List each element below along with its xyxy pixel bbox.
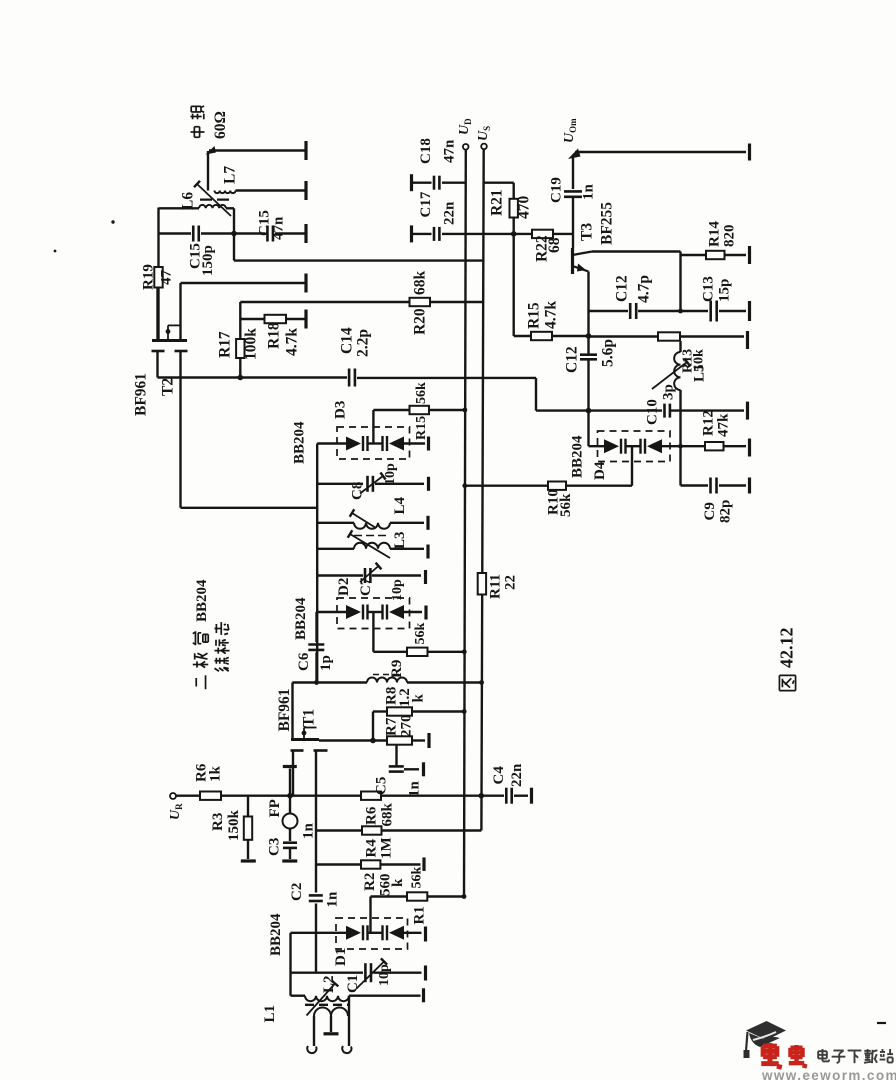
svg-text:L4: L4 — [392, 496, 408, 514]
svg-text:R4: R4 — [363, 839, 379, 858]
svg-text:BB204: BB204 — [268, 913, 284, 956]
svg-text:R1: R1 — [411, 906, 427, 924]
svg-text:56k: 56k — [414, 382, 429, 404]
svg-text:470: 470 — [516, 196, 533, 220]
svg-text:L1: L1 — [262, 1005, 278, 1023]
svg-text:C9: C9 — [702, 502, 718, 520]
svg-text:C12: C12 — [614, 275, 631, 302]
svg-text:R17: R17 — [217, 331, 234, 358]
svg-text:D1: D1 — [333, 948, 349, 966]
svg-text:68: 68 — [546, 237, 563, 253]
svg-text:47n: 47n — [270, 216, 286, 240]
svg-text:1p: 1p — [318, 655, 334, 671]
svg-text:R3: R3 — [210, 813, 226, 831]
svg-text:BF961: BF961 — [276, 688, 293, 731]
svg-text:L3: L3 — [392, 531, 408, 549]
svg-text:L2: L2 — [321, 975, 337, 993]
svg-text:C12: C12 — [564, 346, 581, 373]
svg-text:C5: C5 — [373, 777, 389, 795]
svg-text:www.eeworm.com: www.eeworm.com — [761, 1068, 896, 1080]
svg-text:R11: R11 — [487, 574, 503, 599]
svg-text:C19: C19 — [548, 177, 564, 203]
svg-text:4.7k: 4.7k — [284, 328, 301, 356]
svg-text:k: k — [410, 694, 426, 703]
svg-text:1n: 1n — [300, 823, 316, 840]
svg-text:L7: L7 — [222, 166, 239, 184]
svg-text:60Ω: 60Ω — [212, 111, 229, 139]
svg-text:BB204: BB204 — [291, 421, 307, 464]
svg-text:R2: R2 — [362, 873, 378, 891]
svg-text:BB204: BB204 — [293, 597, 309, 640]
svg-text:5.6p: 5.6p — [600, 339, 617, 367]
svg-text:D3: D3 — [332, 401, 348, 419]
svg-text:3p: 3p — [660, 384, 676, 400]
svg-text:T2: T2 — [160, 378, 177, 396]
svg-text:42.12: 42.12 — [777, 628, 797, 669]
svg-text:270: 270 — [398, 715, 414, 738]
svg-text:C14: C14 — [339, 327, 356, 354]
svg-text:10p: 10p — [390, 579, 405, 601]
svg-text:150p: 150p — [200, 245, 216, 276]
svg-text:L6: L6 — [180, 192, 197, 210]
svg-text:C6: C6 — [296, 652, 312, 671]
svg-text:T1: T1 — [301, 709, 318, 727]
svg-text:C8: C8 — [349, 482, 365, 500]
svg-text:22n: 22n — [441, 201, 457, 225]
svg-text:1M: 1M — [378, 837, 394, 859]
svg-text:R14: R14 — [706, 221, 722, 247]
svg-text:1n: 1n — [580, 184, 596, 201]
svg-text:C2: C2 — [289, 883, 305, 901]
svg-text:22: 22 — [502, 575, 518, 590]
svg-text:D4: D4 — [592, 461, 608, 480]
svg-text:R19: R19 — [140, 264, 156, 290]
svg-text:R15: R15 — [526, 302, 543, 329]
svg-text:k: k — [390, 878, 406, 887]
svg-text:C3: C3 — [266, 838, 282, 856]
svg-text:R6: R6 — [363, 806, 379, 825]
svg-text:68k: 68k — [412, 271, 429, 296]
svg-text:4.7k: 4.7k — [543, 301, 560, 329]
svg-text:1n: 1n — [406, 781, 422, 798]
svg-text:2.2p: 2.2p — [355, 329, 372, 357]
svg-text:82p: 82p — [717, 500, 733, 523]
svg-text:10p: 10p — [383, 463, 398, 485]
svg-text:10p: 10p — [377, 964, 392, 986]
svg-text:4.7p: 4.7p — [636, 275, 653, 303]
svg-text:BB204: BB204 — [569, 435, 585, 478]
svg-text:R7: R7 — [383, 717, 399, 736]
svg-text:56k: 56k — [410, 867, 425, 889]
svg-text:68k: 68k — [379, 803, 395, 827]
svg-text:BB204: BB204 — [194, 579, 210, 622]
svg-text:56k: 56k — [558, 493, 574, 517]
svg-text:100k: 100k — [243, 328, 260, 360]
svg-text:1k: 1k — [207, 766, 223, 783]
svg-text:150k: 150k — [226, 810, 242, 842]
svg-text:R21: R21 — [489, 189, 506, 216]
svg-text:C18: C18 — [418, 138, 434, 164]
svg-text:T3: T3 — [579, 223, 596, 241]
svg-text:47n: 47n — [441, 139, 457, 163]
svg-text:C1: C1 — [345, 975, 361, 993]
svg-text:R9: R9 — [389, 660, 405, 678]
svg-text:R15: R15 — [414, 416, 429, 440]
svg-text:R18: R18 — [266, 322, 283, 349]
svg-text:L5: L5 — [691, 364, 707, 382]
svg-text:R20: R20 — [412, 308, 429, 335]
svg-text:1n: 1n — [324, 891, 340, 908]
svg-text:15p: 15p — [716, 279, 732, 302]
svg-text:820: 820 — [721, 225, 737, 248]
svg-text:C10: C10 — [644, 399, 660, 425]
svg-text:BF255: BF255 — [599, 202, 616, 245]
svg-text:R12: R12 — [700, 410, 716, 436]
svg-text:22n: 22n — [509, 763, 525, 787]
svg-text:C7: C7 — [358, 577, 374, 596]
svg-text:56k: 56k — [413, 623, 428, 645]
svg-text:BF961: BF961 — [133, 373, 150, 416]
svg-text:FP: FP — [267, 799, 283, 817]
svg-text:C4: C4 — [491, 766, 507, 785]
svg-text:47k: 47k — [715, 413, 731, 437]
svg-text:D2: D2 — [336, 578, 352, 596]
svg-text:47: 47 — [158, 270, 174, 286]
svg-text:C17: C17 — [418, 191, 434, 217]
svg-text:C13: C13 — [700, 276, 716, 302]
